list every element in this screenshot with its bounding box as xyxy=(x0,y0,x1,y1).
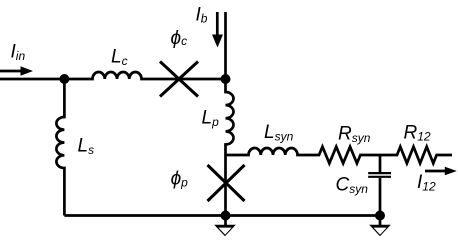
svg-text:Rsyn: Rsyn xyxy=(338,124,371,146)
svg-text:Ib: Ib xyxy=(196,5,208,26)
svg-text:Lp: Lp xyxy=(202,108,220,130)
svg-text:Lsyn: Lsyn xyxy=(264,122,294,144)
svg-text:I12: I12 xyxy=(417,172,436,194)
svg-text:Ls: Ls xyxy=(78,136,95,158)
svg-text:Csyn: Csyn xyxy=(336,174,369,196)
svg-text:ϕc: ϕc xyxy=(171,28,188,49)
svg-text:R12: R12 xyxy=(404,123,431,144)
svg-text:ϕp: ϕp xyxy=(171,169,189,190)
svg-text:Lc: Lc xyxy=(111,47,128,69)
svg-text:Iin: Iin xyxy=(11,42,26,64)
